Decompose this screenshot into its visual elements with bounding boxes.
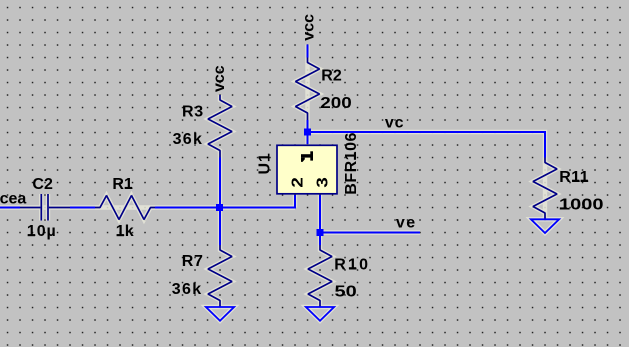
ground under R7 bbox=[206, 307, 234, 321]
node junction at emitter bbox=[317, 229, 324, 236]
svg-text:cea: cea bbox=[0, 191, 26, 208]
wire input net left segment bbox=[0, 207, 20, 209]
wire node up to R3 bbox=[219, 158, 221, 208]
node junction at collector bbox=[304, 129, 311, 136]
svg-text:R1: R1 bbox=[112, 176, 133, 193]
resistor R1 bbox=[95, 196, 155, 220]
svg-text:C2: C2 bbox=[32, 176, 53, 193]
node junction at base bbox=[216, 204, 223, 211]
resistor R11 bbox=[533, 158, 557, 221]
svg-text:1k: 1k bbox=[116, 223, 134, 240]
svg-text:R3: R3 bbox=[182, 104, 204, 121]
svg-text:3: 3 bbox=[314, 177, 331, 188]
resistor R2 bbox=[296, 58, 320, 121]
wire C2 to R1 bbox=[70, 207, 95, 209]
svg-text:vc: vc bbox=[385, 114, 404, 131]
ground under R11 bbox=[531, 219, 559, 233]
pin number 1 bbox=[301, 154, 311, 157]
svg-text:36k: 36k bbox=[172, 281, 203, 298]
svg-text:36k: 36k bbox=[173, 131, 204, 148]
capacitor C2 bbox=[20, 194, 70, 221]
svg-text:vcc: vcc bbox=[211, 65, 228, 92]
wire vcc stub above R2 bbox=[307, 45, 309, 58]
resistor R7 bbox=[208, 245, 232, 308]
transistor U1 box (BFR106) bbox=[277, 145, 337, 194]
svg-text:2: 2 bbox=[289, 177, 306, 188]
svg-text:R10: R10 bbox=[334, 256, 370, 273]
svg-text:vcc: vcc bbox=[301, 14, 318, 41]
svg-text:R7: R7 bbox=[182, 253, 204, 270]
ground under R10 bbox=[306, 307, 334, 321]
resistor R10 bbox=[308, 245, 332, 308]
wire ve net bbox=[320, 232, 420, 234]
wire R1 to base (through node) bbox=[155, 195, 295, 208]
svg-text:ve: ve bbox=[396, 214, 417, 231]
svg-text:50: 50 bbox=[335, 284, 357, 301]
svg-text:200: 200 bbox=[320, 95, 352, 112]
wire R2 to collector bbox=[307, 120, 309, 144]
wire vc net to R11 bbox=[308, 132, 546, 158]
svg-text:R11: R11 bbox=[559, 169, 589, 186]
resistor R3 bbox=[208, 95, 232, 158]
svg-text:10µ: 10µ bbox=[27, 223, 57, 240]
svg-text:U1: U1 bbox=[257, 152, 274, 174]
svg-text:BFR106: BFR106 bbox=[343, 132, 360, 195]
svg-text:1000: 1000 bbox=[559, 197, 604, 214]
wire node down to R7 bbox=[219, 208, 221, 246]
svg-text:R2: R2 bbox=[321, 68, 342, 85]
wire emitter to R10 bbox=[319, 195, 321, 245]
